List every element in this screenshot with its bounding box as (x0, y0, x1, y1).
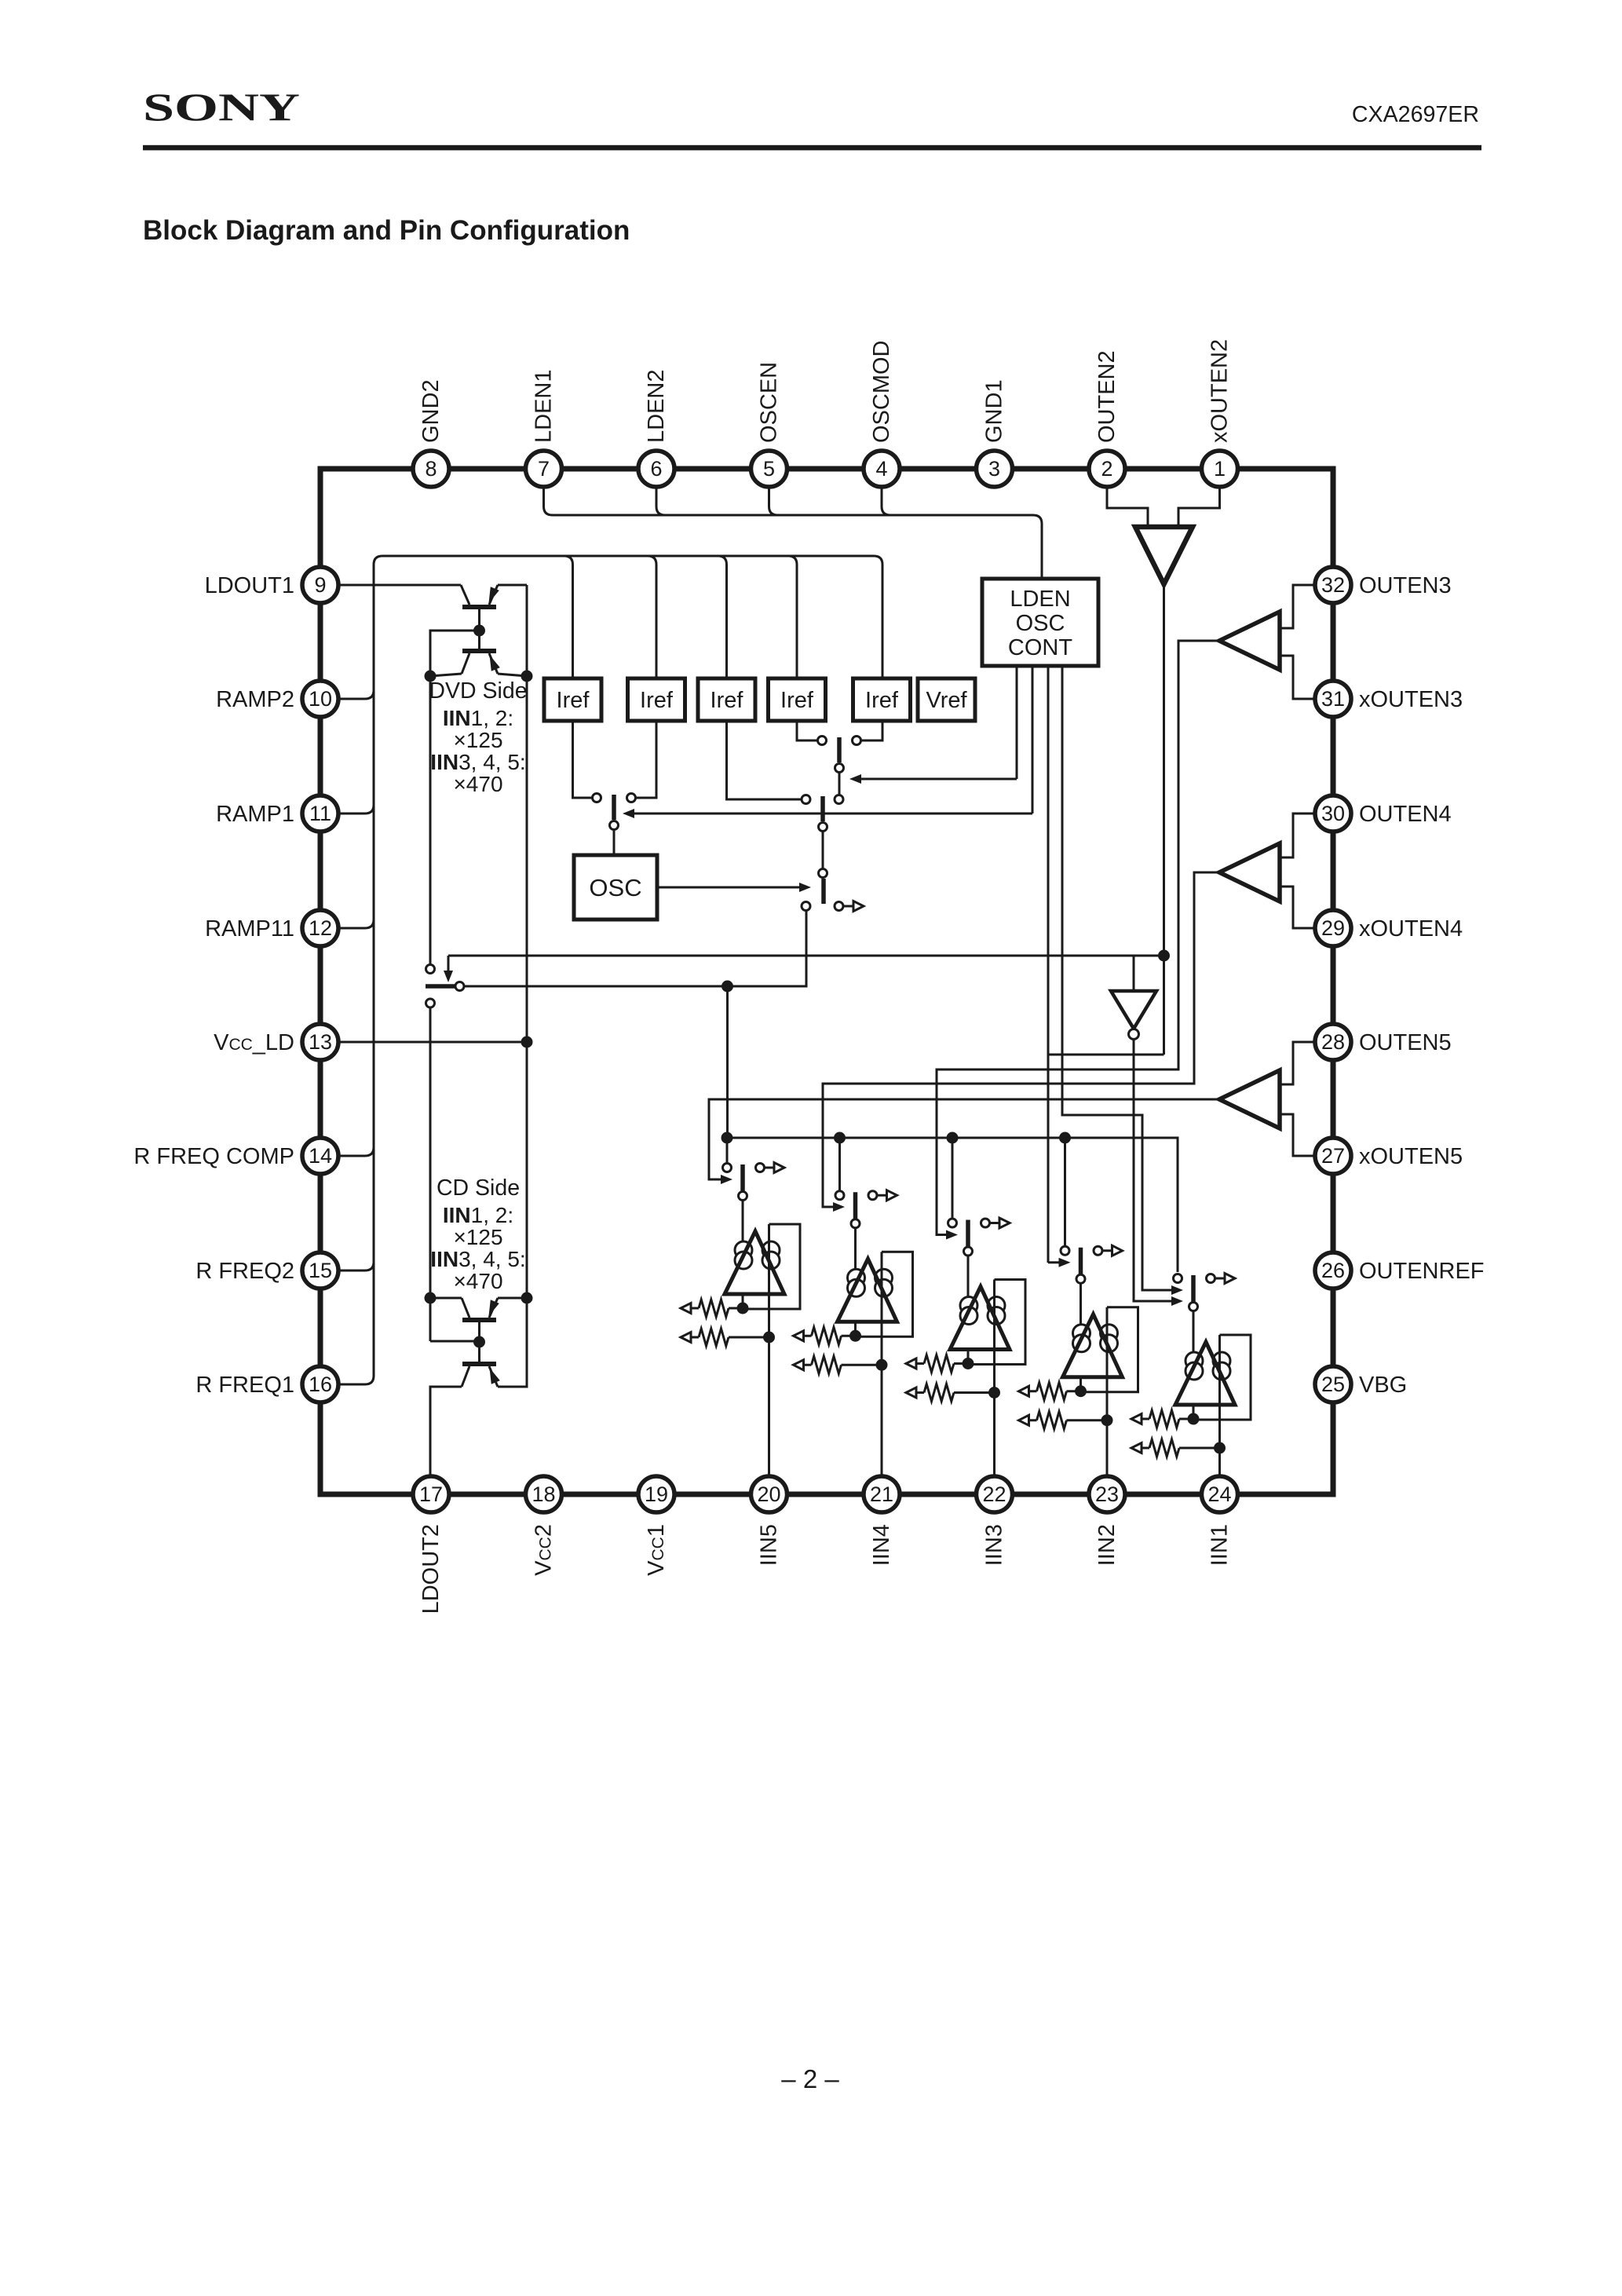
svg-text:R FREQ COMP: R FREQ COMP (133, 1144, 294, 1169)
svg-text:14: 14 (309, 1144, 332, 1168)
svg-text:OSC: OSC (589, 874, 641, 901)
svg-text:RAMP2: RAMP2 (216, 687, 294, 712)
svg-text:Iref: Iref (780, 688, 814, 713)
svg-text:15: 15 (309, 1259, 332, 1282)
svg-text:×470: ×470 (453, 1269, 502, 1293)
svg-text:R FREQ2: R FREQ2 (195, 1259, 294, 1284)
svg-text:CD Side: CD Side (437, 1175, 520, 1201)
svg-text:30: 30 (1321, 802, 1345, 825)
svg-text:28: 28 (1321, 1030, 1345, 1054)
svg-text:OSCMOD: OSCMOD (869, 341, 894, 444)
svg-text:3: 3 (988, 457, 1000, 481)
svg-text:1: 1 (1214, 457, 1226, 481)
svg-text:LDOUT1: LDOUT1 (205, 573, 294, 598)
svg-text:IIN4: IIN4 (869, 1524, 894, 1566)
svg-text:26: 26 (1321, 1259, 1345, 1282)
svg-text:32: 32 (1321, 573, 1345, 597)
svg-text:IIN2: IIN2 (1094, 1524, 1120, 1566)
svg-text:Vref: Vref (926, 688, 967, 713)
svg-text:LDEN: LDEN (1010, 587, 1070, 612)
svg-text:IIN3, 4, 5:: IIN3, 4, 5: (430, 1247, 525, 1271)
svg-text:xOUTEN2: xOUTEN2 (1207, 339, 1233, 443)
svg-text:29: 29 (1321, 916, 1345, 940)
svg-text:xOUTEN4: xOUTEN4 (1359, 916, 1463, 941)
svg-text:LDEN1: LDEN1 (532, 370, 557, 444)
svg-text:Iref: Iref (865, 688, 899, 713)
svg-text:×470: ×470 (453, 772, 502, 796)
svg-text:5: 5 (763, 457, 775, 481)
svg-text:SONY: SONY (143, 85, 300, 129)
svg-text:xOUTEN5: xOUTEN5 (1359, 1144, 1463, 1169)
svg-text:19: 19 (645, 1483, 668, 1506)
svg-text:OUTEN4: OUTEN4 (1359, 802, 1452, 827)
svg-text:RAMP11: RAMP11 (205, 916, 294, 941)
svg-text:27: 27 (1321, 1144, 1345, 1168)
svg-text:OUTEN2: OUTEN2 (1094, 350, 1120, 443)
svg-text:2: 2 (1101, 457, 1112, 481)
svg-text:OSC: OSC (1016, 611, 1065, 636)
svg-text:GND1: GND1 (982, 379, 1007, 443)
svg-text:21: 21 (870, 1483, 893, 1506)
svg-text:7: 7 (538, 457, 550, 481)
svg-text:Iref: Iref (557, 688, 590, 713)
svg-text:4: 4 (875, 457, 887, 481)
svg-text:17: 17 (419, 1483, 443, 1506)
svg-text:13: 13 (309, 1030, 332, 1054)
svg-text:×125: ×125 (453, 728, 502, 752)
svg-text:16: 16 (309, 1373, 332, 1396)
svg-text:22: 22 (982, 1483, 1006, 1506)
svg-text:OUTENREF: OUTENREF (1359, 1259, 1485, 1284)
svg-text:IIN3: IIN3 (982, 1524, 1007, 1566)
svg-text:Iref: Iref (640, 688, 674, 713)
svg-text:OUTEN5: OUTEN5 (1359, 1030, 1452, 1055)
svg-text:LDEN2: LDEN2 (644, 370, 669, 444)
svg-text:18: 18 (532, 1483, 555, 1506)
svg-text:23: 23 (1095, 1483, 1119, 1506)
svg-text:LDOUT2: LDOUT2 (418, 1524, 444, 1614)
svg-text:– 2 –: – 2 – (781, 2064, 839, 2093)
svg-text:OUTEN3: OUTEN3 (1359, 573, 1452, 598)
svg-text:12: 12 (309, 916, 332, 940)
svg-text:VBG: VBG (1359, 1373, 1407, 1398)
svg-text:DVD Side: DVD Side (429, 678, 527, 704)
svg-text:25: 25 (1321, 1373, 1345, 1396)
svg-text:RAMP1: RAMP1 (216, 802, 294, 827)
svg-text:IIN1, 2:: IIN1, 2: (443, 706, 513, 730)
svg-text:xOUTEN3: xOUTEN3 (1359, 687, 1463, 712)
svg-text:×125: ×125 (453, 1225, 502, 1249)
svg-text:VCC_LD: VCC_LD (214, 1030, 294, 1055)
svg-text:24: 24 (1207, 1483, 1231, 1506)
svg-text:IIN1: IIN1 (1207, 1524, 1233, 1566)
svg-text:IIN1, 2:: IIN1, 2: (443, 1203, 513, 1227)
svg-text:OSCEN: OSCEN (757, 362, 782, 443)
svg-text:CONT: CONT (1008, 635, 1072, 660)
svg-text:Iref: Iref (711, 688, 744, 713)
svg-text:8: 8 (425, 457, 437, 481)
svg-text:Block Diagram and Pin Configur: Block Diagram and Pin Configuration (143, 215, 630, 246)
svg-text:R FREQ1: R FREQ1 (195, 1373, 294, 1398)
svg-text:10: 10 (309, 687, 332, 711)
svg-text:9: 9 (314, 573, 326, 597)
svg-text:20: 20 (757, 1483, 780, 1506)
svg-text:IIN3, 4, 5:: IIN3, 4, 5: (430, 750, 525, 774)
svg-text:31: 31 (1321, 687, 1345, 711)
svg-text:11: 11 (309, 802, 331, 825)
svg-text:IIN5: IIN5 (757, 1524, 782, 1566)
svg-text:GND2: GND2 (418, 379, 444, 443)
svg-text:CXA2697ER: CXA2697ER (1352, 102, 1479, 127)
svg-text:6: 6 (650, 457, 662, 481)
